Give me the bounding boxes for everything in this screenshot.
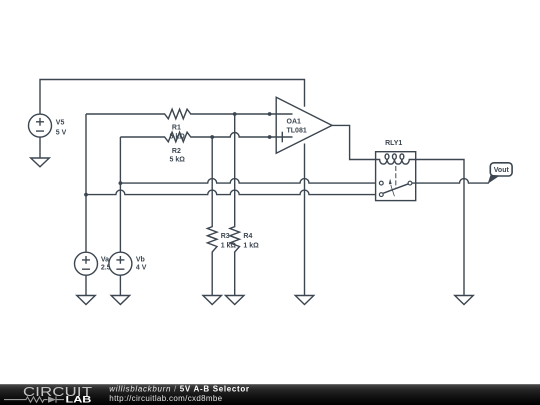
svg-text:RLY1: RLY1 [385,140,402,147]
svg-text:5 kΩ: 5 kΩ [170,157,186,164]
svg-text:R1: R1 [172,125,181,132]
svg-text:LAB: LAB [66,395,92,405]
svg-text:5 V: 5 V [56,130,67,137]
svg-text:1 kΩ: 1 kΩ [221,242,237,249]
svg-text:TL081: TL081 [287,128,307,135]
svg-text:R3: R3 [221,233,230,240]
svg-text:Va: Va [101,256,109,263]
svg-text:1 kΩ: 1 kΩ [243,242,259,249]
svg-text:Vb: Vb [136,256,145,263]
svg-text:http://circuitlab.com/cxd8mbe: http://circuitlab.com/cxd8mbe [109,394,222,403]
svg-text:4 V: 4 V [136,265,147,272]
svg-text:OA1: OA1 [287,119,302,126]
svg-text:V5: V5 [56,119,65,126]
svg-text:willisblackburn / 5V A-B Selec: willisblackburn / 5V A-B Selector [109,385,249,394]
svg-text:Vout: Vout [494,167,510,174]
svg-text:R2: R2 [172,148,181,155]
svg-text:R4: R4 [243,233,252,240]
svg-text:5 kΩ: 5 kΩ [170,133,186,140]
